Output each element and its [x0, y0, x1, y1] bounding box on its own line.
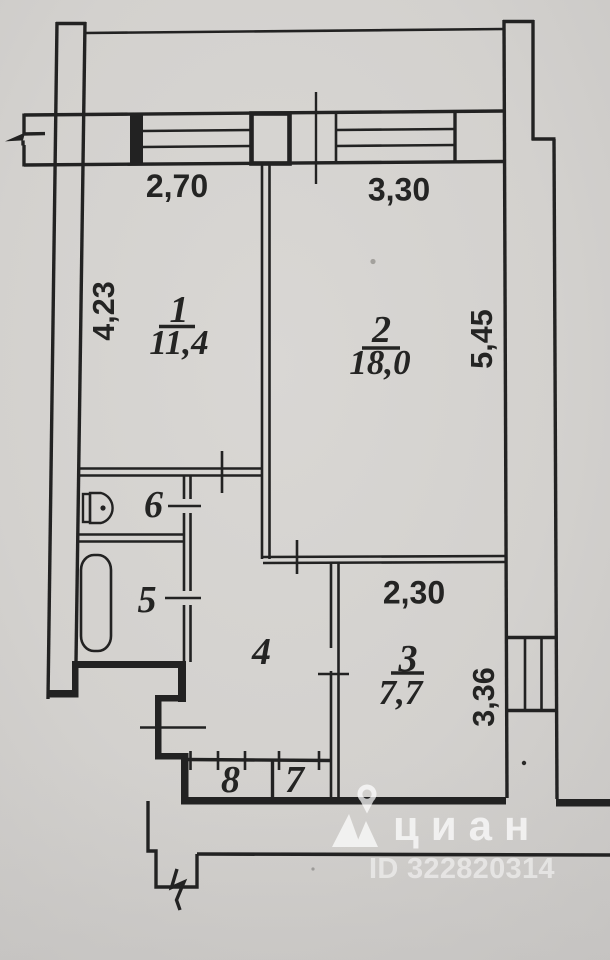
ticks on closets 7/8 wall [191, 751, 320, 770]
toilet tank [83, 494, 90, 522]
window 2 panes [336, 129, 455, 146]
top-left pillar [48, 22, 86, 699]
bottom-left protrusion [148, 801, 197, 887]
svg-text:3,36: 3,36 [467, 667, 501, 726]
ceiling line [85, 29, 504, 33]
south thick wall [181, 797, 610, 807]
wall right of WC and bathroom with door openings [184, 476, 191, 662]
window 2 right edge [453, 112, 456, 162]
window 2 left edge [335, 113, 338, 163]
bathtub [81, 555, 111, 651]
svg-text:11,4: 11,4 [149, 323, 208, 362]
room 1 bottom wall (double line) [79, 469, 261, 476]
window 1 panes [143, 130, 251, 147]
bath door tick [165, 597, 201, 600]
band left cap [22, 114, 25, 167]
svg-text:4: 4 [251, 631, 271, 673]
svg-text:ID 322820314: ID 322820314 [369, 853, 555, 885]
watermark map pin [357, 785, 376, 814]
7/8 divider [271, 760, 274, 799]
svg-text:5: 5 [138, 579, 157, 621]
room 2 fraction underline [362, 346, 400, 349]
room1 door tick [221, 451, 224, 493]
WC door tick [168, 505, 201, 508]
long thin bottom line [197, 854, 610, 855]
entry vestibule thick walls [155, 664, 189, 801]
svg-text:6: 6 [144, 484, 163, 526]
svg-text:5,45: 5,45 [465, 309, 499, 368]
bottom zigzag break [172, 869, 185, 910]
room2 door tick [296, 540, 299, 574]
svg-text:7: 7 [285, 759, 306, 801]
room 2 bottom wall (double line) [263, 556, 505, 563]
svg-text:3,30: 3,30 [368, 172, 430, 208]
bathroom floor thick wall [72, 661, 186, 668]
north wall band top [24, 111, 504, 115]
photo specks [311, 259, 526, 871]
svg-text:7,7: 7,7 [379, 673, 424, 712]
svg-text:2,30: 2,30 [383, 575, 445, 611]
east window of room 3 [505, 638, 556, 711]
central pillar box [252, 114, 290, 164]
watermark logo mark [332, 814, 378, 847]
wall between hall (4) and room 3 with door opening [331, 562, 339, 800]
svg-text:циан: циан [393, 802, 541, 849]
svg-text:2,70: 2,70 [146, 168, 208, 204]
dim tick between windows [315, 92, 317, 184]
svg-text:8: 8 [221, 759, 240, 801]
window1 jamb block [130, 114, 143, 165]
left bottom wall step [47, 664, 79, 698]
room3 door tick [318, 673, 349, 676]
room 1 fraction underline [159, 325, 195, 328]
room 3 fraction underline [391, 671, 424, 674]
rooms 7/8 top line [185, 760, 331, 761]
wall break symbol (left) [5, 133, 45, 146]
toilet bowl [90, 493, 113, 523]
entry door tick [140, 726, 206, 729]
svg-text:4,23: 4,23 [87, 281, 121, 340]
north wall band bottom [24, 162, 504, 166]
wall between WC (6) and bathroom (5) [79, 535, 184, 542]
wall between room 1 and room 2 (double line) [262, 164, 270, 559]
top-right pillar [503, 20, 557, 799]
